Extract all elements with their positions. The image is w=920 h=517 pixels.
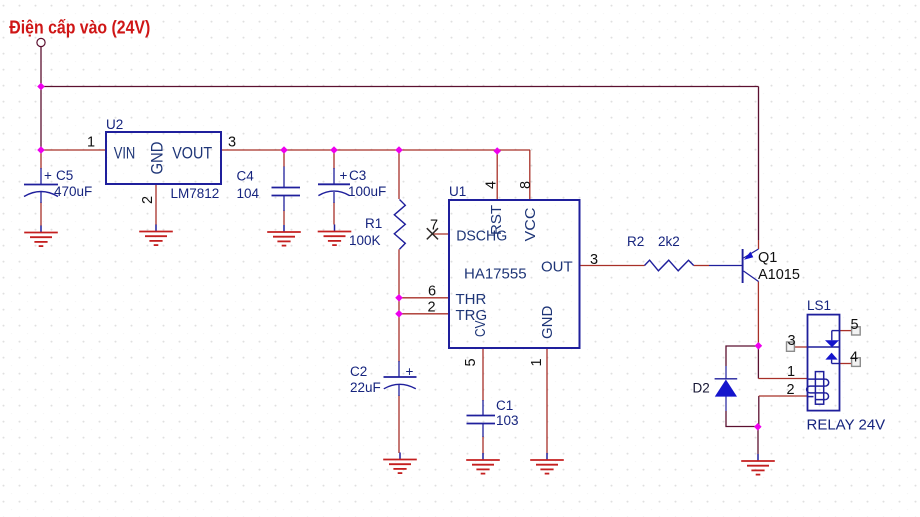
svg-text:C4: C4 xyxy=(237,169,255,184)
svg-text:+: + xyxy=(340,168,348,183)
svg-text:7: 7 xyxy=(430,217,438,233)
svg-text:2k2: 2k2 xyxy=(658,234,680,249)
svg-text:OUT: OUT xyxy=(541,258,573,275)
svg-text:RELAY 24V: RELAY 24V xyxy=(807,417,886,434)
svg-text:VCC: VCC xyxy=(522,207,539,241)
svg-text:5: 5 xyxy=(463,358,479,366)
svg-text:C5: C5 xyxy=(56,168,73,183)
svg-text:A1015: A1015 xyxy=(758,267,800,283)
svg-text:470uF: 470uF xyxy=(54,184,92,199)
svg-text:RST: RST xyxy=(488,205,505,235)
svg-text:6: 6 xyxy=(428,284,436,300)
svg-text:5: 5 xyxy=(851,317,859,333)
svg-text:VIN: VIN xyxy=(114,143,136,162)
svg-text:1: 1 xyxy=(529,358,545,366)
svg-text:Điện cấp vào (24V): Điện cấp vào (24V) xyxy=(9,17,150,37)
svg-text:100K: 100K xyxy=(349,233,381,248)
svg-text:GND: GND xyxy=(539,306,556,340)
svg-text:VOUT: VOUT xyxy=(172,143,212,162)
svg-text:2: 2 xyxy=(787,382,795,398)
svg-text:Q1: Q1 xyxy=(758,250,777,266)
svg-text:22uF: 22uF xyxy=(350,380,381,395)
svg-text:R1: R1 xyxy=(365,216,382,231)
svg-text:1: 1 xyxy=(87,135,95,151)
svg-text:U1: U1 xyxy=(449,184,466,199)
svg-text:C1: C1 xyxy=(496,398,513,413)
svg-text:104: 104 xyxy=(237,186,260,201)
svg-text:3: 3 xyxy=(228,135,236,151)
svg-text:100uF: 100uF xyxy=(348,184,386,199)
svg-text:103: 103 xyxy=(496,413,519,428)
svg-text:C2: C2 xyxy=(350,364,367,379)
svg-text:C3: C3 xyxy=(349,168,366,183)
svg-text:2: 2 xyxy=(140,196,156,204)
svg-text:3: 3 xyxy=(590,252,598,268)
svg-text:D2: D2 xyxy=(693,381,710,396)
svg-text:U2: U2 xyxy=(106,117,123,132)
svg-text:2: 2 xyxy=(428,300,436,316)
svg-text:4: 4 xyxy=(850,350,858,366)
svg-text:HA17555: HA17555 xyxy=(464,266,527,283)
svg-text:GND: GND xyxy=(148,142,167,175)
svg-text:LS1: LS1 xyxy=(807,298,831,313)
svg-text:THR: THR xyxy=(456,291,487,308)
svg-text:4: 4 xyxy=(484,181,500,189)
svg-text:CV: CV xyxy=(472,321,489,338)
svg-text:1: 1 xyxy=(787,364,795,380)
svg-text:3: 3 xyxy=(788,333,796,349)
svg-text:LM7812: LM7812 xyxy=(171,186,220,201)
svg-text:R2: R2 xyxy=(627,234,644,249)
svg-text:+: + xyxy=(44,168,52,183)
svg-text:8: 8 xyxy=(518,181,534,189)
svg-text:+: + xyxy=(406,364,414,379)
